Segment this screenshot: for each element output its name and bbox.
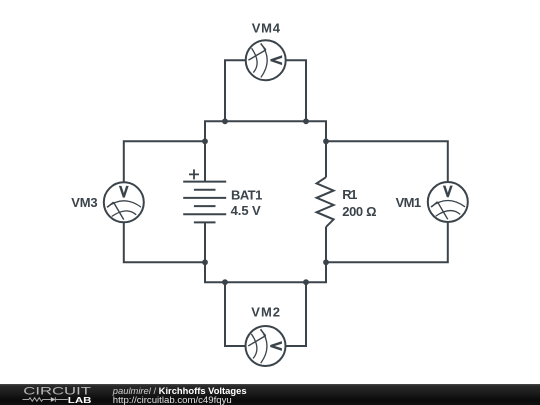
voltmeter VM2: [246, 326, 286, 366]
footer bar: [0, 384, 540, 405]
wire VM3 top: [124, 141, 205, 182]
wire VM4 left leg: [225, 60, 245, 121]
logo diode: [51, 397, 56, 402]
wire VM3 bottom: [124, 222, 205, 262]
wire VM2 right leg: [286, 282, 306, 346]
battery plus sign: [189, 169, 199, 179]
wire VM2 left leg: [225, 282, 245, 346]
resistor R1 zigzag: [317, 177, 334, 227]
svg-text:http://circuitlab.com/c49fqyu: http://circuitlab.com/c49fqyu: [113, 395, 232, 405]
wire VM1 bottom: [326, 222, 448, 262]
voltmeter VM4: [246, 40, 286, 80]
svg-text:LAB: LAB: [68, 396, 92, 405]
wire VM1 top: [326, 141, 448, 182]
voltmeter VM1: [428, 182, 468, 222]
battery BAT1: [183, 182, 226, 223]
node junction dots: [202, 118, 329, 285]
logo squiggle wire + resistor: [23, 398, 51, 402]
wire VM4 right leg: [286, 60, 306, 121]
wire battery bottom lead + bottom rail + R1 bottom lead: [205, 222, 326, 282]
voltmeter VM3: [104, 182, 144, 222]
wire battery top lead + top rail + R1 top lead: [205, 121, 326, 181]
